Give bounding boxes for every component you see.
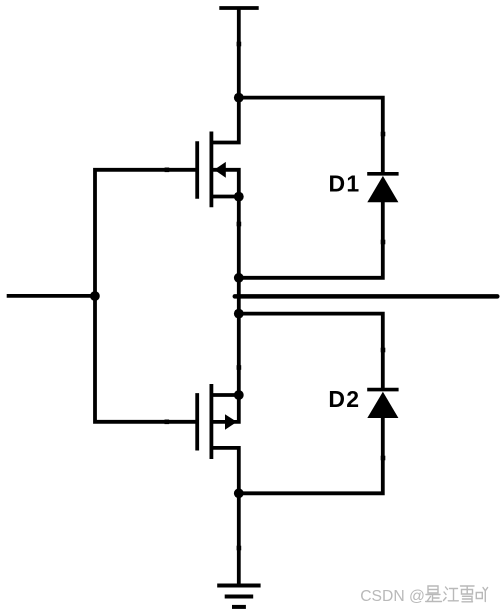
svg-text:D2: D2 [328, 386, 360, 412]
anchor nub on D1 upper branch wire [381, 132, 386, 137]
wire D1 anode to output node [239, 201, 383, 278]
wire gate bus (Q1 gate to Q2 gate) [95, 170, 196, 422]
watermark CSDN @是江雪吖 [360, 586, 487, 605]
anchor nub on D2 lower branch wire [381, 456, 386, 461]
junction dot output to D2 branch [234, 309, 244, 319]
wire output node to D2 cathode branch [239, 314, 383, 390]
wire VDD bar to node A [237, 8, 241, 98]
transistor Q2 (bottom, NMOS) [197, 384, 239, 493]
anchor nub on D2 upper branch wire [381, 348, 386, 353]
anchor nub on ground lead wire [237, 546, 242, 551]
anchor nub on D1 lower branch wire [381, 240, 386, 245]
junction dot Q1 drain/body [234, 192, 244, 202]
wire D2 anode to ground node [239, 418, 383, 494]
svg-text:D1: D1 [329, 170, 361, 196]
anchor nub on Q1 gate lead [165, 168, 170, 173]
junction dot D1 return / output [234, 273, 244, 283]
output line (net OUT) [235, 294, 498, 299]
anchor nub on output vertical wire (lower) [237, 365, 242, 370]
junction dot ground node [234, 488, 244, 498]
anchor nub on VDD wire [237, 42, 242, 47]
diode D2 [367, 390, 398, 418]
wire input lead (net IN) [7, 294, 95, 298]
node A junction dot [234, 93, 244, 103]
ground symbol [217, 586, 260, 607]
anchor nub on Q2 gate lead [165, 420, 170, 425]
anchor nub on output vertical wire (upper) [237, 222, 242, 227]
junction dot input to gate bus [90, 291, 100, 301]
wire ground node to ground symbol [237, 493, 241, 585]
svg-text:CSDN @: CSDN @ [360, 588, 425, 605]
junction dot Q2 drain/body [234, 390, 244, 400]
wire Q1 source to VDD node [210, 98, 239, 143]
wire Q1 drain to Q2 drain (output vertical) [237, 197, 241, 395]
transistor Q1 (top, PMOS) [197, 132, 239, 208]
diode D1 [367, 174, 398, 202]
power rail VDD bar [219, 6, 258, 10]
wire node A to D1 cathode branch [239, 98, 383, 175]
